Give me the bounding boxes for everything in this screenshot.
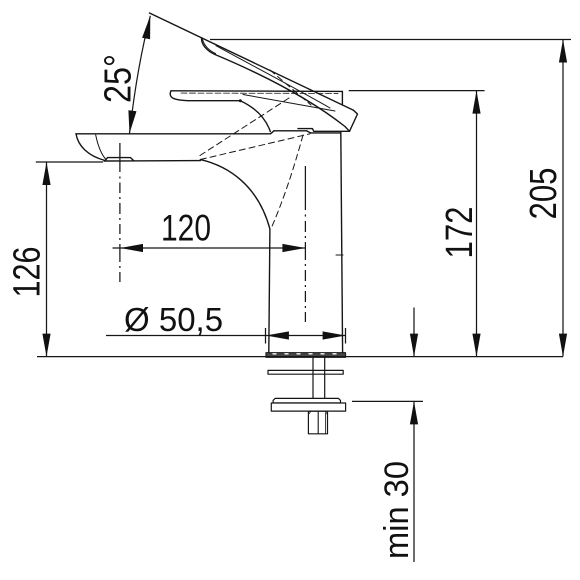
threaded stud	[313, 357, 325, 398]
dim 172 line	[476, 91, 478, 357]
open handle tip right edge	[350, 110, 358, 131]
dim 126 extension line top	[36, 161, 103, 163]
trumpet curve (body left)	[200, 160, 270, 229]
surface line	[37, 356, 563, 358]
arrow arc bottom	[128, 110, 136, 133]
body top right line	[311, 132, 341, 134]
arrow 172 bottom	[472, 334, 480, 357]
svg-text:126: 126	[7, 247, 49, 298]
arrow 126 top	[42, 162, 50, 185]
aerator centerline dash-dot	[119, 143, 121, 282]
svg-text:25°: 25°	[98, 54, 140, 103]
dim 172 extension line top	[349, 90, 485, 92]
closed handle top band inner line	[181, 92, 338, 94]
cap step up	[271, 131, 275, 134]
lower flange layer2	[271, 403, 345, 411]
dim dia50.5 leader+line	[106, 335, 346, 337]
arrow min30 down	[410, 334, 418, 357]
open handle nose	[202, 39, 216, 55]
svg-text:min 30: min 30	[378, 461, 416, 559]
closed handle top edge	[171, 90, 342, 93]
dim 205 line	[562, 40, 564, 357]
25deg arc	[130, 16, 151, 134]
svg-text:120: 120	[161, 208, 211, 249]
min30 extension line	[352, 400, 423, 402]
hidden line B (cone)	[271, 135, 303, 229]
closed handle rear tail line	[243, 95, 335, 112]
closed handle rear edge	[341, 91, 343, 104]
arrow dia right	[323, 331, 346, 339]
aerator underside line	[104, 160, 200, 162]
closed handle neck curve	[240, 101, 270, 132]
cap top	[274, 130, 307, 132]
arrow 126 bottom	[42, 334, 50, 357]
hex nut chamfers	[308, 411, 327, 414]
hex nut facet line	[317, 411, 319, 434]
open handle bottom edge	[215, 55, 350, 132]
arrowheads	[42, 16, 567, 425]
arrow 172 top	[472, 91, 480, 114]
column centerline dash-dot	[304, 166, 306, 322]
dim 120 line	[113, 247, 306, 249]
hidden line C (lever)	[200, 98, 289, 156]
flange thread ticks	[273, 353, 336, 355]
min30 upper line	[413, 308, 415, 357]
cap step down	[307, 131, 311, 133]
closed handle nose	[170, 91, 188, 101]
closed handle bottom edge	[188, 100, 240, 102]
arrow dia left	[266, 331, 289, 339]
spout tip inner edge	[96, 135, 106, 160]
min30 lower line	[413, 401, 415, 562]
arrow min30 up	[410, 401, 418, 424]
open handle tip bottom edge	[298, 129, 350, 132]
dim 126 line	[46, 162, 48, 357]
hex nut	[308, 411, 327, 434]
svg-text:Ø 50,5: Ø 50,5	[124, 301, 223, 338]
hidden line A (cone)	[200, 134, 310, 160]
dia50.5 ext tick left	[265, 328, 267, 344]
lower flange layer1	[273, 398, 340, 403]
hex nut right facet	[325, 413, 327, 434]
open handle inner nose arc	[203, 40, 216, 54]
column left edge	[269, 229, 270, 353]
closed handle junction dot	[239, 99, 242, 102]
svg-text:205: 205	[523, 168, 565, 220]
right edge tick	[336, 254, 343, 256]
arrow 205 bottom	[559, 334, 567, 357]
column right edge	[341, 132, 343, 353]
arrow 120 right	[282, 244, 305, 252]
open handle top (tilted) line	[150, 13, 354, 110]
aerator dome	[105, 158, 134, 161]
dim 205 extension line top	[210, 39, 571, 41]
hidden line D (lever)	[270, 70, 311, 105]
open handle inner line	[216, 46, 330, 108]
middle washer	[268, 370, 343, 374]
base flange	[266, 353, 346, 358]
arrow 120 left	[120, 244, 143, 252]
spout tip front curve	[76, 134, 105, 161]
dia50.5 ext tick right	[345, 328, 347, 344]
arrow 205 top	[559, 40, 567, 63]
spout top line	[76, 133, 271, 135]
svg-text:172: 172	[439, 207, 481, 259]
arrow arc top	[142, 16, 150, 39]
